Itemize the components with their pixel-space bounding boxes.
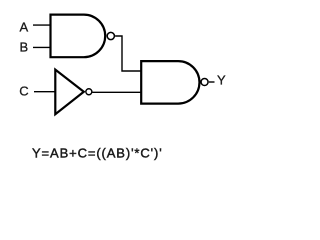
svg-text:C: C	[19, 84, 28, 99]
inverter U3 output bubble	[86, 89, 92, 95]
wire input A	[33, 24, 51, 26]
wire input C	[34, 91, 55, 93]
svg-text:Y=AB+C=((AB)'*C')': Y=AB+C=((AB)'*C')'	[32, 145, 163, 160]
svg-text:A: A	[20, 19, 29, 34]
nand gate U2 body	[141, 61, 199, 104]
svg-text:Y: Y	[217, 72, 226, 87]
wire U3 output to U2 lower input	[92, 91, 141, 93]
nand gate U2 output bubble	[201, 79, 208, 86]
nand gate U1 body	[51, 15, 106, 58]
wire input B	[33, 46, 51, 48]
wire U1 output to U2 upper input	[115, 36, 141, 71]
nand gate U1 output bubble	[107, 32, 114, 39]
wire U2 output to Y	[209, 81, 215, 83]
svg-text:B: B	[20, 40, 29, 55]
inverter U3 triangle	[55, 70, 84, 115]
